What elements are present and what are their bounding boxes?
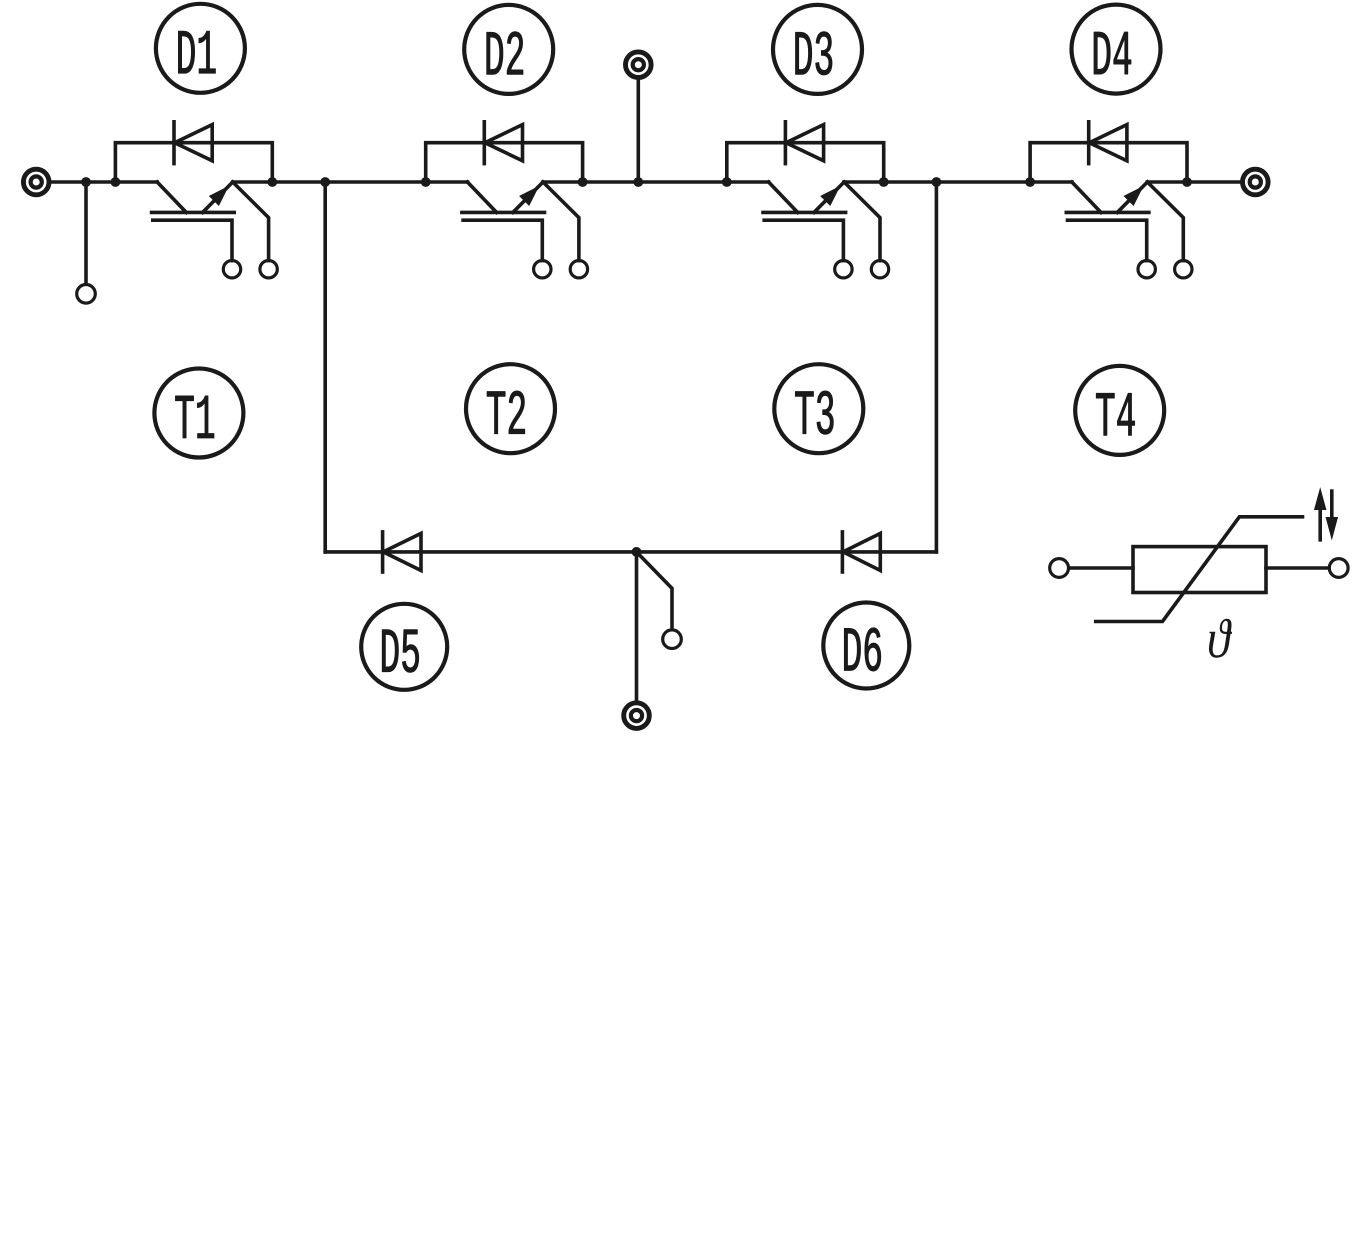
transistor T4 label text: [1096, 393, 1134, 435]
transistor T2 label circle: [466, 364, 555, 453]
right main (emitter 4) terminal inner circle: [1250, 176, 1261, 187]
diode D3 anti-parallel loop wire: [727, 143, 884, 182]
transistor T1 label text: [175, 396, 214, 438]
transistor T1 gate bar and gate lead: [153, 220, 232, 260]
diode D2 label text: [487, 32, 523, 75]
diode D1 anti-parallel loop wire: [115, 143, 272, 182]
transistor T4 label circle: [1075, 366, 1164, 455]
diode D4 label circle: [1072, 5, 1161, 94]
wire thermistor right lead: [1266, 566, 1329, 570]
diode D6 triangle: [843, 533, 880, 570]
thermistor down arrowhead: [1326, 518, 1337, 539]
transistor T3 gate bar and gate lead: [764, 220, 843, 260]
transistor T3 collector lead: [769, 182, 798, 212]
transistor T3 gate terminal: [835, 261, 852, 278]
collector sense terminal: [77, 285, 96, 304]
diode D2 anti-parallel loop wire: [426, 143, 583, 182]
transistor T1 auxiliary emitter terminal: [260, 261, 277, 278]
diode D4 cathode bar: [1087, 122, 1091, 164]
thermistor R(th) left terminal: [1050, 559, 1069, 578]
transistor T4 emitter arrowhead: [1124, 187, 1142, 205]
transistor T4 channel bar: [1066, 211, 1149, 215]
transistor T3 channel bar: [763, 211, 846, 215]
wire lower loop right vertical: [935, 182, 939, 552]
diode D1 triangle: [175, 125, 213, 161]
aux sense terminal: [663, 630, 682, 649]
diode D4 triangle: [1089, 125, 1127, 161]
bottom main (DC-) terminal outer circle: [624, 703, 650, 729]
thermistor down arrow shaft: [1330, 491, 1334, 526]
node collector sense junction: [81, 177, 91, 187]
transistor T3 auxiliary emitter lead: [844, 182, 880, 261]
diode D4 anti-parallel loop wire: [1030, 143, 1187, 182]
diode D6 label circle: [823, 603, 909, 689]
diode D5 label text: [382, 630, 419, 673]
top main (DC+) terminal inner circle: [633, 59, 644, 70]
diode D5 label circle: [361, 604, 447, 690]
transistor T4 gate bar and gate lead: [1068, 220, 1147, 260]
node T3 collector junction: [722, 177, 732, 187]
diode D6 cathode bar: [841, 532, 845, 572]
diode D3 label circle: [773, 5, 862, 94]
diode D2 label circle: [464, 5, 553, 94]
wire thermistor left lead: [1069, 566, 1133, 570]
diode D6 label text: [844, 628, 881, 671]
transistor T1 label circle: [154, 369, 243, 458]
transistor T1 emitter arrowhead: [210, 187, 228, 205]
transistor T3 auxiliary emitter terminal: [871, 261, 888, 278]
diode D5 triangle: [383, 533, 421, 570]
transistor T2 auxiliary emitter lead: [543, 182, 579, 261]
left main (collector 1) terminal outer circle: [23, 169, 49, 195]
diode D2 triangle: [485, 125, 523, 161]
transistor T4 emitter line: [1117, 182, 1147, 212]
left main (collector 1) terminal inner circle: [31, 176, 42, 187]
wire cell4 to right terminal: [1147, 180, 1242, 184]
node T2 collector junction: [421, 177, 431, 187]
wire lower loop left vertical: [323, 182, 327, 552]
transistor T2 emitter line: [513, 182, 543, 212]
node top terminal junction: [633, 177, 643, 187]
transistor T2 channel bar: [462, 211, 545, 215]
wire top terminal drop: [636, 79, 640, 183]
diode D3 triangle: [786, 125, 824, 161]
transistor T2 auxiliary emitter terminal: [570, 261, 587, 278]
wire bottom terminal drop: [635, 552, 639, 702]
diode D3 label text: [795, 32, 832, 75]
thermistor temperature label: [1209, 619, 1232, 658]
right main (emitter 4) terminal outer circle: [1243, 169, 1269, 195]
diode D1 label circle: [156, 4, 245, 93]
diode D2 cathode bar: [482, 122, 486, 164]
bottom main (DC-) terminal inner circle: [631, 710, 642, 721]
diode D1 label text: [178, 31, 215, 73]
transistor T3 label circle: [774, 364, 863, 453]
transistor T1 auxiliary emitter lead: [233, 182, 269, 261]
transistor T3 emitter arrowhead: [821, 187, 839, 205]
transistor T4 gate terminal: [1138, 261, 1155, 278]
transistor T3 label text: [795, 391, 833, 434]
node T1 emitter junction: [267, 177, 277, 187]
node lower loop right junction: [932, 177, 942, 187]
wire lower loop bottom: [325, 550, 936, 554]
transistor T2 gate terminal: [534, 261, 551, 278]
node T4 collector junction: [1025, 177, 1035, 187]
thermistor R(th) body rectangle: [1133, 547, 1266, 593]
diode D1 cathode bar: [172, 122, 176, 164]
transistor T2 gate bar and gate lead: [463, 220, 542, 260]
wire left terminal to bus: [50, 180, 157, 184]
thermistor NTC diagonal stroke: [1096, 517, 1303, 622]
diode D5 cathode bar: [381, 532, 385, 572]
transistor T3 emitter line: [814, 182, 844, 212]
transistor T2 label text: [487, 391, 525, 434]
transistor T1 collector lead: [157, 182, 186, 212]
transistor T1 gate terminal: [223, 261, 240, 278]
diode D3 cathode bar: [784, 122, 788, 164]
wire bus cell3-cell4: [844, 180, 1072, 184]
transistor T2 collector lead: [468, 182, 497, 212]
thermistor up arrowhead: [1315, 489, 1326, 510]
transistor T4 auxiliary emitter lead: [1147, 182, 1183, 261]
wire aux sense diagonal: [637, 552, 673, 629]
thermistor up arrow shaft: [1318, 501, 1322, 540]
transistor T4 collector lead: [1072, 182, 1101, 212]
wire collector sense branch: [84, 182, 88, 284]
wire bus cell2-cell3: [543, 180, 769, 184]
node T2 emitter junction: [578, 177, 588, 187]
transistor T1 emitter line: [203, 182, 233, 212]
transistor T1 channel bar: [152, 211, 235, 215]
thermistor R(th) right terminal: [1329, 559, 1348, 578]
diode D4 label text: [1094, 32, 1131, 74]
node T3 emitter junction: [879, 177, 889, 187]
node T4 emitter junction: [1182, 177, 1192, 187]
top main (DC+) terminal outer circle: [626, 52, 652, 78]
transistor T4 auxiliary emitter terminal: [1175, 261, 1192, 278]
node T1 collector junction: [111, 177, 121, 187]
transistor T2 emitter arrowhead: [520, 187, 538, 205]
node lower loop left junction: [320, 177, 330, 187]
node lower loop center junction: [632, 547, 642, 557]
wire bus cell1-cell2: [233, 180, 468, 184]
